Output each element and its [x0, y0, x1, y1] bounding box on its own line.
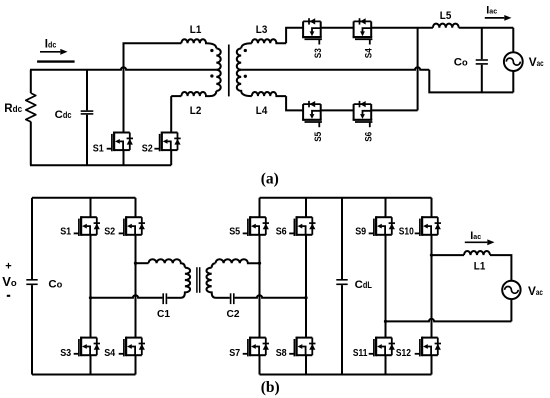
wire: S3 to S4 [321, 27, 354, 29]
wire: left input rail bottom segment [30, 122, 32, 166]
svg-text:S6: S6 [364, 132, 375, 142]
svg-text:S4: S4 [364, 48, 375, 59]
svg-text:C1: C1 [157, 309, 170, 320]
inductor L5 (a) [433, 24, 459, 28]
arrow: Iac (a) [485, 17, 505, 19]
node: leg3 midpoint junction dot [258, 262, 261, 265]
wire: leg between S6 (b) and S8 (b) [305, 235, 307, 338]
svg-text:S9: S9 [355, 227, 366, 238]
wire: L2 to S2 [171, 95, 181, 97]
wire: bridge output link vertical [417, 28, 419, 111]
wire: bottom rail (a) [30, 164, 171, 166]
svg-text:(b): (b) [261, 379, 280, 396]
wire: left input rail top segment [30, 70, 32, 93]
wire: S3 (b) source [90, 355, 92, 374]
wire: S2 (b) drain [135, 198, 137, 217]
wire: leg2 to primary winding [136, 262, 149, 264]
capacitor Co (a) lead top [481, 28, 483, 60]
wire: leg between S2 (b) and S4 (b) [135, 235, 137, 338]
wire: S4 to L5 top line [371, 27, 433, 29]
wire: S1 drain riser and link to L1 [124, 43, 182, 132]
capacitor CdL plates [336, 279, 347, 281]
transistor S3 (b) [74, 337, 100, 357]
label - (b) [7, 295, 10, 297]
transistor S2 (a) [154, 132, 180, 152]
wire: leg6 to L1 (b) [432, 254, 465, 256]
wire: top rail left section (b) [32, 197, 136, 199]
wire: S9 (b) drain [385, 198, 387, 217]
wire: leg between S5 (b) and S7 (b) [259, 235, 261, 338]
winding: L1 vertical section [216, 48, 220, 69]
svg-text:Co: Co [454, 57, 468, 69]
svg-text:Rdc: Rdc [4, 103, 22, 115]
wire: S2 source to bottom rail [170, 150, 172, 165]
wire: main input line to center tap with hop over S1 drain [30, 67, 216, 70]
inductor: primary horizontal winding (b) [149, 259, 185, 267]
svg-text:L1: L1 [190, 24, 202, 36]
winding: secondary vertical section (b) [212, 263, 216, 267]
wire: center tap line to output with hop over bridge link [241, 67, 429, 70]
transistor S9 (b) [369, 216, 395, 236]
svg-text:L1: L1 [474, 261, 486, 273]
AC source Vac (b) [502, 281, 520, 299]
transistor S4 (b) [119, 337, 145, 357]
inductor L2 winding (a) [181, 92, 209, 96]
svg-text:S5: S5 [229, 227, 240, 238]
svg-text:S4: S4 [104, 348, 115, 359]
wire: leg between S10 (b) and S12 (b) [431, 235, 433, 338]
wire: bottom rail left section (b) [32, 374, 136, 376]
inductor: secondary horizontal winding (b) [216, 259, 260, 263]
capacitor Co (b) lead top [31, 198, 33, 279]
transistor S11 (b) [369, 337, 395, 357]
wire: S6 (b) drain [305, 198, 307, 217]
wire: leg between S1 (b) and S3 (b) [90, 235, 92, 338]
wire: leg between S9 (b) and S11 (b) [385, 235, 387, 338]
svg-text:S6: S6 [276, 227, 287, 238]
inductor L1 winding (a) [181, 39, 216, 48]
wire: secondary to C2 [216, 297, 230, 299]
svg-text:Iac: Iac [486, 5, 497, 17]
wire: S4 (b) source [135, 355, 137, 374]
wire: top rail right section (b) [260, 197, 432, 199]
polarity dot L3 [244, 49, 247, 52]
capacitor CdL lead bottom [341, 285, 343, 374]
wire: bottom rail right section (b) [260, 374, 432, 376]
svg-text:Co: Co [48, 279, 62, 291]
capacitor C1 plates [162, 293, 164, 304]
wire: C1 right lead to winding [167, 297, 181, 299]
svg-text:Vac: Vac [529, 55, 544, 69]
polarity dot L1 [210, 49, 213, 52]
wire: output right side down to Vac [512, 28, 514, 53]
wire: S5 to S6 [321, 109, 354, 111]
transistor S2 (b) [119, 216, 145, 236]
wire: bar under Idc arrow [37, 60, 75, 62]
transistor S1 (a) [107, 132, 133, 152]
node: leg2 midpoint junction dot [134, 262, 137, 265]
transistor S7 (b) [243, 337, 269, 357]
svg-text:S8: S8 [276, 348, 287, 359]
inductor L4 winding (a) [252, 92, 286, 96]
node: leg6 midpoint junction dot [430, 253, 433, 256]
winding: L2 vertical section [216, 70, 220, 91]
resistor Rdc [26, 93, 36, 122]
node: leg5 midpoint junction dot [384, 320, 387, 323]
svg-text:Idc: Idc [45, 39, 57, 51]
wire: S12 (b) source [431, 355, 433, 374]
svg-text:L5: L5 [440, 10, 452, 22]
capacitor Co (b) plates [26, 279, 37, 281]
capacitor Co (b) lead bottom [31, 285, 33, 374]
capacitor Co (a) plates [476, 59, 488, 61]
winding: L3/L4 vertical sections [237, 48, 241, 69]
wire: L1 to Vac (b) [490, 255, 511, 281]
svg-text:Cdc: Cdc [55, 109, 72, 121]
capacitor Cdc lead top [86, 70, 88, 111]
transistor S6 (b) [289, 216, 315, 236]
wire: output return with hop over leg6 (b) [386, 319, 512, 322]
wire: L3 up to S3 row [286, 28, 303, 44]
transistor S4 (a) [353, 18, 373, 44]
wire: S1 (b) drain [90, 198, 92, 217]
svg-text:S3: S3 [60, 348, 71, 359]
svg-text:L2: L2 [190, 105, 202, 117]
svg-text:Iac: Iac [470, 230, 481, 242]
svg-text:+: + [5, 261, 11, 273]
winding: L3 vertical section [241, 43, 252, 48]
svg-text:S5: S5 [313, 131, 324, 142]
wire: S8 (b) source [305, 355, 307, 374]
polarity dot L4 [244, 75, 247, 78]
capacitor Cdc lead bottom [86, 115, 88, 166]
polarity dot L2 [210, 74, 213, 77]
wire: S2 drain riser [170, 96, 172, 132]
transistor S10 (b) [415, 216, 441, 236]
transformer core (b) [196, 267, 198, 293]
svg-text:S1: S1 [93, 143, 104, 154]
arrow: Idc current direction [40, 51, 60, 53]
wire: S10 (b) drain [431, 198, 433, 217]
svg-text:S12: S12 [396, 348, 411, 359]
node: leg1 midpoint junction dot [89, 296, 92, 299]
svg-text:CdL: CdL [355, 279, 372, 291]
svg-text:(a): (a) [261, 170, 279, 187]
transistor S1 (b) [74, 216, 100, 236]
winding: primary vertical section (b) [181, 268, 190, 298]
wire: Vac (b) bottom lead [510, 299, 512, 321]
inductor L3 winding (a) [252, 39, 286, 43]
wire: output bottom rail (a) [429, 70, 513, 93]
svg-text:S10: S10 [399, 227, 414, 238]
svg-text:S3: S3 [313, 48, 324, 58]
svg-text:L3: L3 [256, 24, 267, 36]
wire: S11 (b) source [385, 355, 387, 374]
node: leg4 midpoint junction dot [304, 296, 307, 299]
arrow: Iac (b) [465, 241, 488, 243]
capacitor C2 plates [230, 293, 232, 304]
transistor S5 (a) [302, 101, 322, 127]
transistor S3 (a) [302, 18, 322, 44]
svg-text:S2: S2 [142, 143, 153, 154]
wire: C1 left lead with hop over leg2 [91, 295, 163, 298]
wire: S1 source to bottom rail [123, 150, 125, 165]
capacitor CdL lead top [341, 198, 343, 279]
AC source Vac (a) [504, 52, 523, 71]
svg-text:L4: L4 [256, 105, 268, 117]
winding: L2 vertical tail and corner [210, 91, 217, 96]
transistor S8 (b) [289, 337, 315, 357]
capacitor Co (a) lead bottom [481, 65, 483, 93]
wire: L4 down to S5 row [286, 96, 303, 110]
inductor L1 (b) [464, 251, 490, 255]
transistor S5 (b) [243, 216, 269, 236]
svg-text:S1: S1 [60, 227, 71, 238]
svg-text:Vac: Vac [528, 284, 543, 298]
svg-text:C2: C2 [227, 309, 240, 320]
capacitor Cdc plates [81, 110, 94, 112]
wire: Vac (a) bottom lead [512, 71, 514, 92]
wire: C2 to leg4 with hop over leg3 [235, 295, 306, 298]
transistor S12 (b) [415, 337, 441, 357]
transformer core (a) [228, 45, 230, 97]
transistor S6 (a) [353, 101, 373, 127]
wire: L5 to output corner [459, 27, 514, 29]
svg-text:S11: S11 [353, 348, 368, 359]
svg-text:S2: S2 [104, 227, 115, 238]
wire: S6 row to bridge link [371, 109, 417, 111]
svg-text:S7: S7 [229, 348, 240, 359]
wire: S7 (b) source [259, 355, 261, 374]
wire: S5 (b) drain [259, 198, 261, 217]
